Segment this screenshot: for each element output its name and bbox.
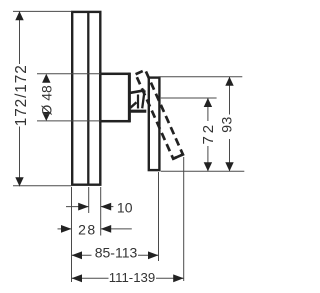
handle hub right edge xyxy=(142,90,144,108)
svg-text:72: 72 xyxy=(200,122,217,145)
svg-text:10: 10 xyxy=(117,199,133,215)
extension line sleeve bottom (D48) xyxy=(37,120,100,122)
extension line sleeve top (D48) xyxy=(37,73,100,75)
sleeve (&#216;48 escutcheon) xyxy=(100,74,129,121)
dashed handle lever (alternate position) xyxy=(135,70,184,160)
svg-text:93: 93 xyxy=(218,116,234,133)
handle hub left detail xyxy=(130,102,136,108)
svg-text:172/172: 172/172 xyxy=(13,64,30,126)
svg-text:28: 28 xyxy=(78,222,97,238)
dimension 85-113 xyxy=(72,254,92,256)
dimension 10 xyxy=(66,206,89,208)
extension line plate back (B) xyxy=(88,187,90,213)
extension line plate front (C) xyxy=(100,187,102,236)
extension line handle top (93) xyxy=(159,76,243,78)
handle hub left edge xyxy=(137,95,139,109)
svg-text:111-139: 111-139 xyxy=(109,270,155,285)
dimension line 93 xyxy=(229,77,231,115)
svg-text:Ø 48: Ø 48 xyxy=(39,85,55,116)
plate middle line xyxy=(87,12,89,185)
extension line top left (172/172 top) xyxy=(13,10,72,12)
sleeve front face xyxy=(128,73,131,123)
extension line handle bottom xyxy=(161,170,245,172)
dimension 28 xyxy=(58,228,72,230)
extension line handle max (E) xyxy=(183,157,185,281)
extension line handle min (D) xyxy=(158,172,160,261)
extension line handle pivot (72) xyxy=(161,97,217,99)
extension line bottom left (172/172 bottom) xyxy=(13,185,72,187)
dimension line 172/172 xyxy=(19,11,21,64)
dimension line 72 xyxy=(207,98,209,121)
extension line wall (A) xyxy=(71,187,73,282)
svg-text:85-113: 85-113 xyxy=(95,245,138,261)
handle hub top bar xyxy=(128,90,144,93)
handle lever (solid, vertical) xyxy=(149,78,160,171)
dimension 111-139 xyxy=(72,277,109,279)
handle hub bottom bar xyxy=(130,110,146,113)
wall plate (escutcheon side view) xyxy=(72,12,100,185)
dimension arrows D48 xyxy=(42,74,50,83)
